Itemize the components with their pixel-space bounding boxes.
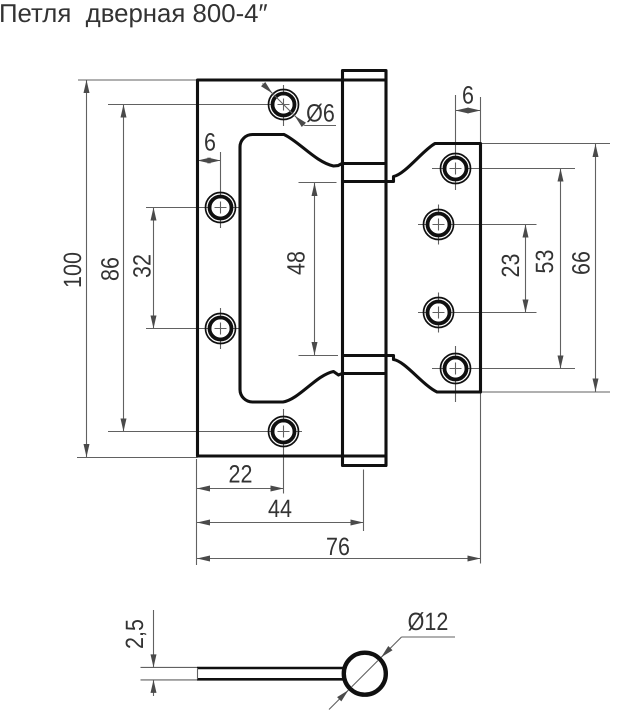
svg-text:100: 100 [59, 252, 87, 288]
svg-text:2,5: 2,5 [121, 619, 149, 649]
svg-text:48: 48 [283, 251, 311, 275]
svg-text:6: 6 [204, 129, 216, 157]
svg-text:22: 22 [229, 461, 253, 489]
svg-text:6: 6 [462, 82, 474, 110]
svg-text:53: 53 [531, 250, 559, 274]
svg-text:66: 66 [568, 251, 596, 275]
svg-text:Ø12: Ø12 [408, 608, 449, 636]
svg-text:32: 32 [129, 254, 157, 278]
svg-text:44: 44 [268, 495, 292, 523]
svg-text:23: 23 [497, 254, 525, 278]
svg-text:Ø6: Ø6 [306, 100, 335, 128]
svg-text:86: 86 [97, 257, 125, 281]
svg-text:76: 76 [326, 533, 350, 561]
